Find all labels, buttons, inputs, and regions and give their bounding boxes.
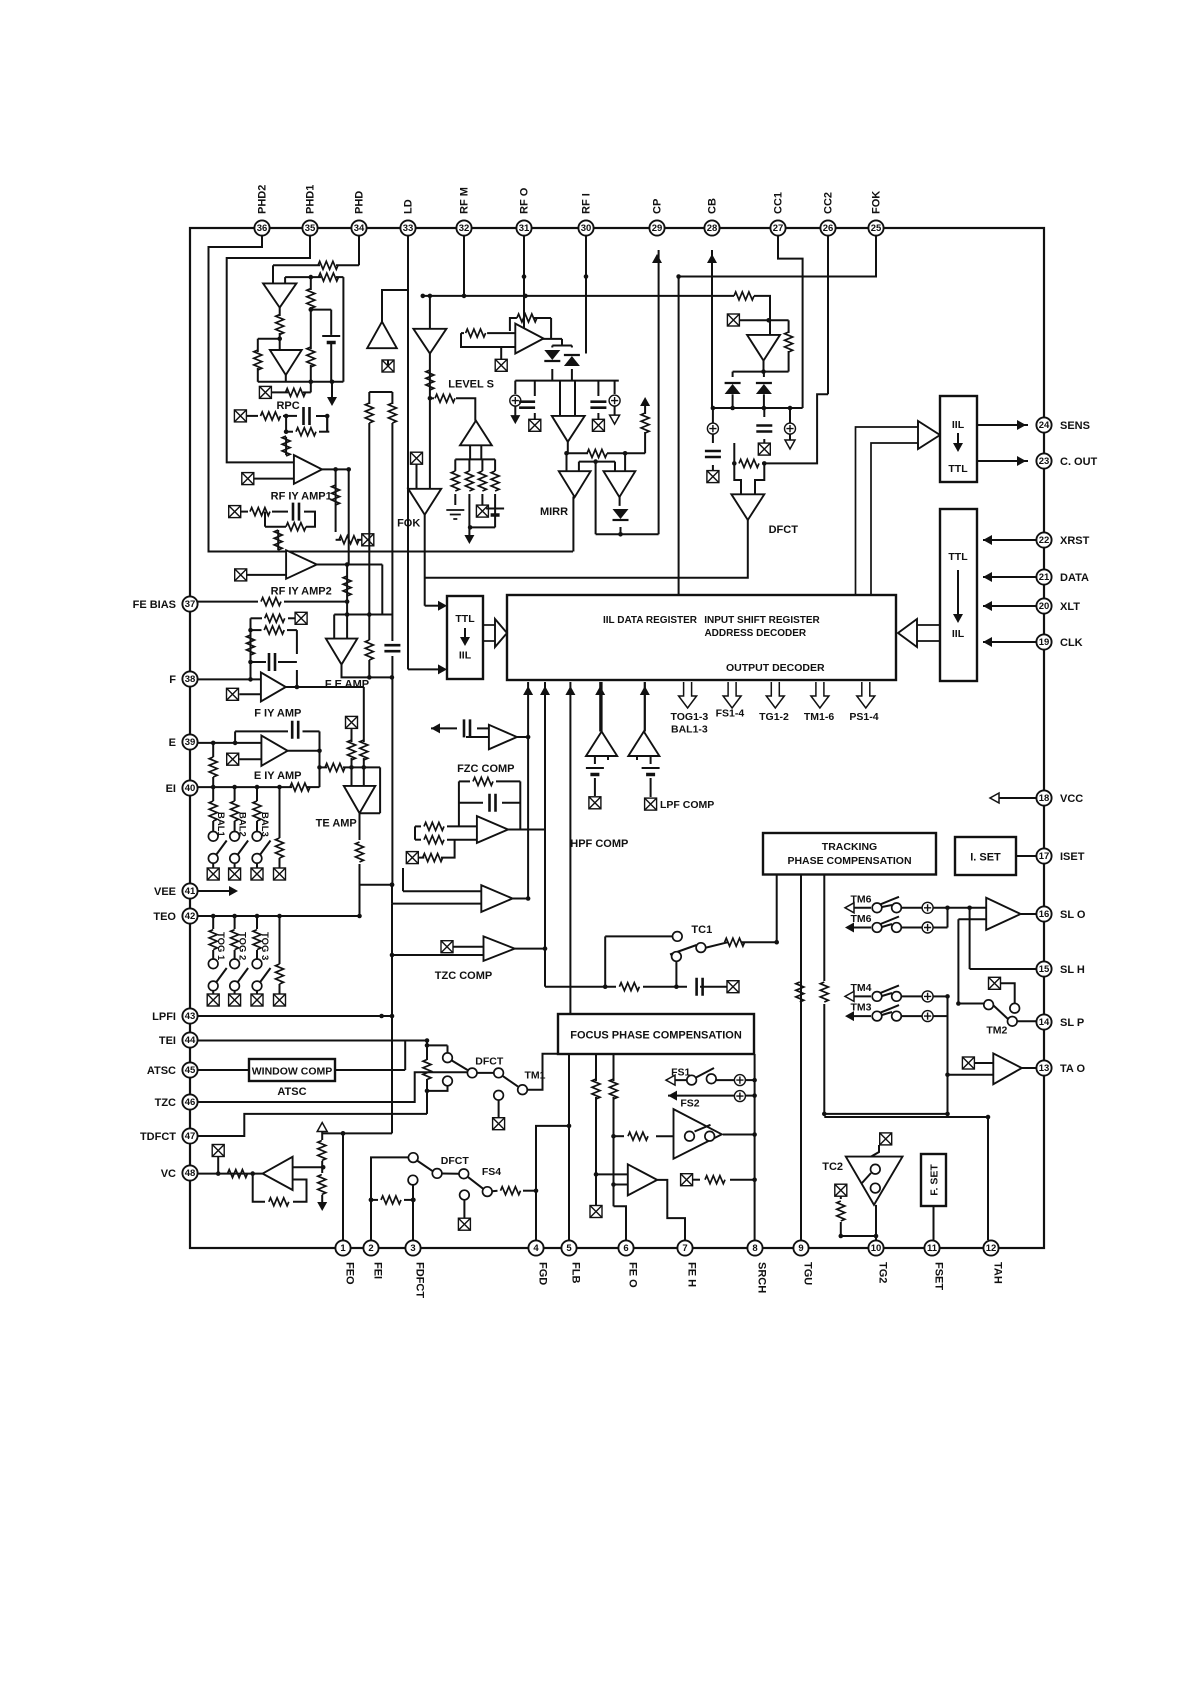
svg-text:TZC: TZC bbox=[155, 1097, 176, 1109]
svg-text:PS1-4: PS1-4 bbox=[849, 711, 878, 723]
svg-text:43: 43 bbox=[185, 1011, 196, 1022]
svg-text:LPFI: LPFI bbox=[152, 1011, 176, 1023]
svg-text:IIL: IIL bbox=[952, 419, 965, 431]
svg-text:FLB: FLB bbox=[570, 1262, 582, 1283]
svg-text:E IY AMP: E IY AMP bbox=[254, 770, 302, 782]
svg-text:TRACKING: TRACKING bbox=[822, 841, 877, 853]
svg-text:46: 46 bbox=[185, 1097, 196, 1108]
svg-text:F E AMP: F E AMP bbox=[325, 679, 369, 691]
svg-text:IIL: IIL bbox=[952, 628, 965, 640]
svg-text:BAL1-3: BAL1-3 bbox=[671, 723, 708, 735]
svg-text:41: 41 bbox=[185, 886, 196, 897]
svg-text:35: 35 bbox=[305, 223, 316, 234]
svg-text:DFCT: DFCT bbox=[769, 524, 799, 536]
svg-text:FOK: FOK bbox=[397, 518, 420, 530]
svg-text:26: 26 bbox=[823, 223, 834, 234]
svg-text:40: 40 bbox=[185, 783, 196, 794]
svg-text:21: 21 bbox=[1039, 572, 1050, 583]
svg-text:EI: EI bbox=[166, 783, 176, 795]
svg-text:TTL: TTL bbox=[455, 613, 475, 625]
svg-text:SENS: SENS bbox=[1060, 420, 1090, 432]
svg-text:RPC: RPC bbox=[276, 400, 299, 412]
svg-text:RF IY AMP2: RF IY AMP2 bbox=[271, 586, 332, 598]
svg-text:TM1-6: TM1-6 bbox=[804, 711, 834, 723]
svg-text:TOG 1: TOG 1 bbox=[215, 932, 226, 961]
svg-text:RF IY AMP1: RF IY AMP1 bbox=[271, 491, 332, 503]
svg-text:C. OUT: C. OUT bbox=[1060, 456, 1098, 468]
svg-text:44: 44 bbox=[185, 1035, 196, 1046]
svg-text:E: E bbox=[169, 737, 176, 749]
svg-text:TTL: TTL bbox=[948, 463, 968, 475]
svg-text:24: 24 bbox=[1039, 420, 1050, 431]
svg-text:27: 27 bbox=[773, 223, 784, 234]
svg-text:9: 9 bbox=[798, 1243, 803, 1254]
svg-text:MIRR: MIRR bbox=[540, 506, 568, 518]
svg-text:34: 34 bbox=[354, 223, 365, 234]
svg-text:TOG 3: TOG 3 bbox=[259, 932, 270, 960]
svg-text:ISET: ISET bbox=[1060, 851, 1085, 863]
svg-text:2: 2 bbox=[368, 1243, 373, 1254]
svg-text:BAL3: BAL3 bbox=[259, 812, 270, 837]
svg-text:TG2: TG2 bbox=[877, 1262, 889, 1283]
svg-text:4: 4 bbox=[533, 1243, 539, 1254]
svg-text:LPF COMP: LPF COMP bbox=[660, 799, 714, 811]
svg-text:10: 10 bbox=[871, 1243, 882, 1254]
svg-text:8: 8 bbox=[752, 1243, 757, 1254]
svg-text:3: 3 bbox=[410, 1243, 415, 1254]
svg-text:PHASE COMPENSATION: PHASE COMPENSATION bbox=[787, 855, 911, 867]
svg-text:PHD1: PHD1 bbox=[305, 185, 317, 214]
svg-text:FS4: FS4 bbox=[482, 1166, 501, 1178]
svg-text:ADDRESS DECODER: ADDRESS DECODER bbox=[704, 628, 806, 639]
svg-text:28: 28 bbox=[707, 223, 718, 234]
svg-text:BAL2: BAL2 bbox=[236, 812, 247, 837]
svg-text:12: 12 bbox=[986, 1243, 997, 1254]
svg-text:1: 1 bbox=[340, 1243, 346, 1254]
svg-text:XRST: XRST bbox=[1060, 535, 1090, 547]
svg-text:PHD2: PHD2 bbox=[257, 185, 269, 214]
svg-text:RF O: RF O bbox=[519, 187, 531, 214]
svg-text:19: 19 bbox=[1039, 637, 1050, 648]
svg-text:33: 33 bbox=[403, 223, 414, 234]
svg-text:INPUT SHIFT REGISTER: INPUT SHIFT REGISTER bbox=[704, 615, 820, 626]
svg-text:CP: CP bbox=[652, 199, 664, 214]
svg-text:FSET: FSET bbox=[933, 1262, 945, 1290]
svg-text:VC: VC bbox=[161, 1168, 176, 1180]
svg-text:36: 36 bbox=[257, 223, 268, 234]
svg-text:TAH: TAH bbox=[992, 1262, 1004, 1284]
svg-text:39: 39 bbox=[185, 737, 196, 748]
svg-text:WINDOW COMP: WINDOW COMP bbox=[252, 1066, 333, 1078]
svg-text:18: 18 bbox=[1039, 793, 1050, 804]
svg-text:FE O: FE O bbox=[627, 1262, 639, 1288]
svg-text:TOG 2: TOG 2 bbox=[236, 932, 247, 960]
svg-text:RF I: RF I bbox=[581, 193, 593, 214]
svg-text:TC2: TC2 bbox=[822, 1161, 843, 1173]
svg-text:22: 22 bbox=[1039, 535, 1050, 546]
svg-text:32: 32 bbox=[459, 223, 470, 234]
svg-text:TM1: TM1 bbox=[525, 1070, 546, 1082]
svg-text:LD: LD bbox=[403, 199, 415, 214]
svg-text:I. SET: I. SET bbox=[970, 852, 1001, 864]
svg-text:FS2: FS2 bbox=[680, 1098, 699, 1110]
svg-text:FOK: FOK bbox=[871, 191, 883, 214]
svg-text:FDFCT: FDFCT bbox=[414, 1262, 426, 1298]
svg-text:TM2: TM2 bbox=[986, 1025, 1007, 1037]
svg-text:OUTPUT DECODER: OUTPUT DECODER bbox=[726, 662, 825, 674]
svg-text:CLK: CLK bbox=[1060, 637, 1083, 649]
svg-text:45: 45 bbox=[185, 1065, 196, 1076]
svg-text:FZC COMP: FZC COMP bbox=[457, 763, 514, 775]
svg-text:42: 42 bbox=[185, 911, 196, 922]
svg-text:37: 37 bbox=[185, 599, 196, 610]
svg-text:FE H: FE H bbox=[686, 1262, 698, 1287]
svg-text:30: 30 bbox=[581, 223, 592, 234]
svg-text:TOG1-3: TOG1-3 bbox=[671, 711, 709, 723]
svg-text:CB: CB bbox=[707, 198, 719, 214]
svg-text:FE BIAS: FE BIAS bbox=[133, 599, 176, 611]
svg-text:7: 7 bbox=[682, 1243, 687, 1254]
svg-text:ATSC: ATSC bbox=[277, 1086, 306, 1098]
svg-text:SRCH: SRCH bbox=[756, 1262, 768, 1293]
svg-text:29: 29 bbox=[652, 223, 663, 234]
svg-text:TC1: TC1 bbox=[691, 924, 712, 936]
svg-text:TE AMP: TE AMP bbox=[316, 817, 357, 829]
svg-text:IIL: IIL bbox=[459, 649, 472, 661]
svg-text:16: 16 bbox=[1039, 909, 1050, 920]
svg-text:SL P: SL P bbox=[1060, 1017, 1084, 1029]
svg-text:13: 13 bbox=[1039, 1063, 1050, 1074]
svg-text:23: 23 bbox=[1039, 456, 1050, 467]
svg-text:LEVEL S: LEVEL S bbox=[448, 379, 494, 391]
svg-text:RF M: RF M bbox=[459, 187, 471, 214]
svg-text:TEO: TEO bbox=[153, 911, 176, 923]
svg-text:FEI: FEI bbox=[372, 1262, 384, 1279]
svg-text:SL H: SL H bbox=[1060, 964, 1085, 976]
svg-text:CC2: CC2 bbox=[823, 192, 835, 214]
svg-text:DFCT: DFCT bbox=[441, 1155, 470, 1167]
svg-text:DATA: DATA bbox=[1060, 572, 1089, 584]
svg-text:XLT: XLT bbox=[1060, 601, 1080, 613]
svg-text:5: 5 bbox=[566, 1243, 572, 1254]
svg-text:15: 15 bbox=[1039, 964, 1050, 975]
svg-text:VCC: VCC bbox=[1060, 793, 1083, 805]
svg-text:IIL DATA REGISTER: IIL DATA REGISTER bbox=[603, 615, 698, 626]
svg-text:HPF COMP: HPF COMP bbox=[570, 838, 628, 850]
svg-text:FOCUS PHASE COMPENSATION: FOCUS PHASE COMPENSATION bbox=[570, 1030, 742, 1042]
svg-text:TTL: TTL bbox=[948, 551, 968, 563]
svg-text:TEI: TEI bbox=[159, 1035, 176, 1047]
svg-text:FEO: FEO bbox=[344, 1262, 356, 1285]
svg-text:20: 20 bbox=[1039, 601, 1050, 612]
svg-text:BAL1: BAL1 bbox=[215, 812, 226, 838]
svg-text:SL O: SL O bbox=[1060, 909, 1086, 921]
svg-text:47: 47 bbox=[185, 1131, 196, 1142]
svg-text:DFCT: DFCT bbox=[475, 1056, 504, 1068]
svg-text:F IY AMP: F IY AMP bbox=[254, 707, 301, 719]
svg-text:TG1-2: TG1-2 bbox=[759, 711, 789, 723]
svg-text:6: 6 bbox=[623, 1243, 628, 1254]
svg-text:F: F bbox=[169, 674, 176, 686]
svg-text:TGU: TGU bbox=[802, 1262, 814, 1285]
svg-text:TDFCT: TDFCT bbox=[140, 1131, 176, 1143]
svg-text:48: 48 bbox=[185, 1168, 196, 1179]
svg-text:FS1-4: FS1-4 bbox=[716, 707, 745, 719]
svg-text:F. SET: F. SET bbox=[929, 1164, 941, 1196]
svg-text:CC1: CC1 bbox=[773, 192, 785, 214]
svg-text:TA O: TA O bbox=[1060, 1063, 1085, 1075]
svg-text:ATSC: ATSC bbox=[147, 1065, 176, 1077]
svg-text:38: 38 bbox=[185, 674, 196, 685]
svg-text:11: 11 bbox=[927, 1243, 938, 1254]
svg-text:FGD: FGD bbox=[537, 1262, 549, 1285]
svg-text:TZC COMP: TZC COMP bbox=[435, 970, 492, 982]
svg-text:31: 31 bbox=[519, 223, 530, 234]
svg-text:14: 14 bbox=[1039, 1017, 1050, 1028]
svg-text:VEE: VEE bbox=[154, 886, 176, 898]
svg-text:25: 25 bbox=[871, 223, 882, 234]
svg-text:PHD: PHD bbox=[354, 191, 366, 214]
svg-text:17: 17 bbox=[1039, 851, 1050, 862]
